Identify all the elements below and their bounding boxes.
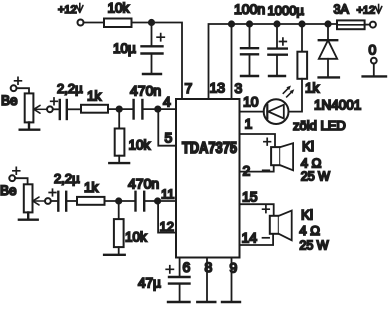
wire pin 2 to speaker 1 [240, 165, 274, 171]
svg-text:12: 12 [160, 219, 174, 234]
svg-text:1000µ: 1000µ [268, 3, 305, 18]
fuse 3A [334, 3, 365, 30]
pin label 9 [230, 260, 238, 276]
svg-text:1k: 1k [84, 180, 99, 195]
ground (diode) [319, 76, 339, 78]
IC U1 TDA7375 [176, 99, 240, 258]
ground (pin 8) [197, 301, 215, 303]
capacitor 470n (ch2 coupling) [128, 176, 159, 211]
wire terminal to potentiometer (ch1) [17, 88, 29, 93]
junction (ch2 bias) [115, 197, 122, 204]
resistor 1k (ch1 series) [81, 89, 108, 113]
svg-text:13: 13 [210, 80, 226, 96]
svg-text:TDA7375: TDA7375 [182, 140, 237, 157]
svg-text:10µ: 10µ [113, 41, 136, 56]
capacitor 100n (bus) [234, 1, 265, 76]
capacitor 1000u (bus) [268, 3, 305, 76]
wire pin 9 to ground [231, 258, 233, 303]
svg-text:4: 4 [163, 94, 171, 110]
wire fuse to +12V terminal [365, 24, 370, 26]
svg-text:10k: 10k [108, 1, 130, 16]
wire 1k to LED [289, 79, 302, 112]
pin label 14 [242, 230, 258, 246]
wire pin 1 to speaker 1 [240, 134, 276, 147]
pin label 4 [163, 94, 171, 110]
svg-text:Be: Be [1, 93, 18, 108]
ground (ch1 10k) [109, 162, 129, 164]
ground (0V terminal) [363, 75, 386, 77]
svg-text:Ki: Ki [301, 208, 313, 223]
input terminal Be (channel 2) [0, 167, 20, 198]
+12V terminal (right) [357, 5, 382, 28]
pin label 1 [245, 116, 253, 132]
+12V supply label (left) [58, 4, 83, 17]
svg-text:470n: 470n [128, 176, 159, 192]
input terminal Be (channel 1) [1, 77, 21, 108]
svg-text:15: 15 [242, 189, 258, 205]
resistor 10k (ch1 bias to ground) [115, 112, 151, 163]
pin label 10 [243, 94, 259, 110]
resistor 1k (LED series) [297, 24, 319, 96]
junction (diode) [324, 20, 331, 27]
wire junction to pin 5 [158, 109, 176, 146]
svg-text:5: 5 [165, 130, 173, 146]
ground (pot ch1) [20, 122, 40, 129]
svg-text:3: 3 [235, 80, 243, 96]
pin label 8 [205, 259, 213, 275]
wire cap to R 1k (ch2) [67, 200, 77, 202]
wire terminal to R 10k [84, 22, 104, 24]
wire pin 15 to speaker 2 [240, 204, 274, 216]
wire pin 3 to bus [231, 24, 233, 99]
+12V input terminal (left) [78, 20, 84, 26]
resistor 10k (supply feed) [104, 1, 132, 28]
speaker Ki channel 1 [263, 138, 330, 183]
svg-text:2,2µ: 2,2µ [54, 171, 80, 186]
ground (10u) [143, 73, 161, 75]
capacitor 470n (ch1 coupling) [130, 83, 161, 119]
junction (supply / 10u) [148, 19, 155, 26]
svg-text:4 Ω: 4 Ω [299, 223, 320, 238]
wire pin 10 to LED [240, 111, 264, 113]
svg-text:10: 10 [243, 94, 259, 110]
potentiometer (ch1 level) [25, 93, 53, 122]
svg-text:47µ: 47µ [138, 276, 161, 291]
pin label 11 [161, 187, 175, 202]
svg-text:6: 6 [183, 259, 191, 275]
svg-text:11: 11 [161, 187, 175, 202]
svg-text:2: 2 [243, 163, 251, 179]
svg-text:zöld LED: zöld LED [293, 118, 346, 133]
capacitor 47u (pin 6) [138, 258, 190, 303]
ground (pin 9) [222, 301, 240, 303]
svg-text:1k: 1k [87, 89, 102, 104]
ground (100n) [241, 75, 258, 77]
speaker Ki channel 2 [263, 206, 329, 253]
junction (pins 11/12) [154, 197, 161, 204]
wire cap to R 1k (ch1) [68, 108, 81, 110]
svg-text:0: 0 [369, 42, 377, 58]
junction (1000u) [273, 20, 280, 27]
wire R 10k to pin 7 of IC [132, 23, 183, 100]
wire 470n to pin 4 [144, 108, 177, 110]
svg-text:3A: 3A [334, 3, 350, 17]
svg-text:100n: 100n [234, 1, 265, 17]
pin label 13 [210, 80, 226, 96]
svg-text:Ki: Ki [302, 139, 314, 154]
wire junction to pin 12 [158, 201, 176, 233]
junction (pins 4/5) [154, 106, 161, 113]
svg-text:1: 1 [245, 116, 253, 132]
wire pin 8 to ground [206, 258, 208, 303]
ground (1000u) [269, 75, 285, 77]
diode 1N4001 (reverse protection) [314, 24, 361, 113]
svg-text:1k: 1k [305, 81, 320, 96]
junction (pin 3) [228, 20, 235, 27]
junction (100n) [246, 20, 253, 27]
junction (1k) [298, 20, 305, 27]
wire pin 14 to speaker 2 [240, 234, 274, 245]
svg-text:470n: 470n [130, 83, 161, 99]
wire 470n to pin 11 [145, 200, 176, 202]
pin label 2 [243, 163, 251, 179]
svg-text:25 W: 25 W [301, 170, 330, 184]
wire R 1k to 470n (ch2) [105, 200, 135, 202]
capacitor 2,2u (ch2 input) [49, 171, 80, 211]
ground (pot ch2) [19, 212, 38, 219]
svg-text:2,2µ: 2,2µ [57, 81, 83, 96]
svg-text:+12: +12 [58, 4, 77, 16]
potentiometer (ch2 level) [24, 184, 51, 212]
svg-text:Be: Be [0, 183, 17, 198]
svg-text:1N4001: 1N4001 [314, 98, 361, 113]
resistor 1k (ch2 series) [77, 180, 105, 205]
pin label 7 [185, 80, 193, 96]
pin label 5 [165, 130, 173, 146]
wire R 1k to 470n (ch1) [108, 108, 133, 110]
resistor 10k (ch2 bias to ground) [114, 204, 147, 255]
svg-text:10k: 10k [129, 138, 151, 153]
wire terminal to potentiometer (ch2) [15, 178, 27, 184]
svg-text:8: 8 [205, 259, 213, 275]
capacitor 10u (supply decoupling) [113, 25, 164, 74]
junction (ch1 bias) [116, 106, 123, 113]
svg-text:14: 14 [242, 230, 258, 246]
pin label 6 [183, 259, 191, 275]
pin label 12 [160, 219, 174, 234]
+12V bus wire [209, 24, 338, 99]
0V terminal [369, 42, 377, 77]
ground (47u) [168, 301, 190, 303]
svg-text:4 Ω: 4 Ω [301, 156, 322, 171]
pin label 15 [242, 189, 258, 205]
ground (ch2 10k) [104, 254, 125, 256]
svg-text:7: 7 [185, 80, 193, 96]
pin label 3 [235, 80, 243, 96]
capacitor 2,2u (ch1 input) [51, 81, 83, 119]
svg-text:25 W: 25 W [299, 239, 328, 253]
svg-text:+12: +12 [357, 5, 376, 17]
LED zold (green) [264, 86, 346, 134]
svg-text:10k: 10k [125, 230, 147, 245]
